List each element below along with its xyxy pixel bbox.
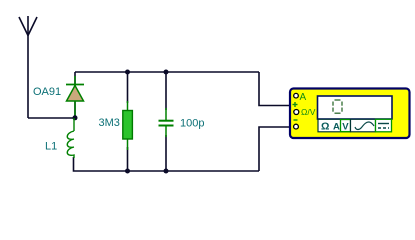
svg-text:100p: 100p (180, 118, 204, 130)
svg-text:A: A (333, 122, 340, 133)
sine wave glyph (355, 122, 374, 130)
svg-text:Ω: Ω (321, 121, 329, 133)
meter minus sign (294, 119, 298, 121)
meter plus sign (293, 102, 298, 107)
resistor R1 3M3 (123, 101, 133, 150)
meter button V selected (341, 120, 351, 132)
meter terminal ohm-volt circle (294, 110, 299, 115)
antenna AE1 (19, 16, 37, 36)
wire capacitor drop bottom (165, 135, 167, 171)
DC glyph solid line (378, 123, 389, 125)
junction top rail capacitor (164, 70, 169, 75)
meter terminal A circle (294, 93, 299, 98)
meter button DC selected (376, 119, 392, 132)
svg-text:A: A (300, 92, 307, 103)
junction bottom rail capacitor (164, 169, 169, 174)
svg-text:L1: L1 (45, 141, 57, 153)
meter display window (318, 96, 393, 119)
svg-text:OA91: OA91 (33, 86, 61, 98)
svg-text:3M3: 3M3 (99, 117, 120, 129)
wire antenna to node A (28, 117, 75, 119)
svg-text:Ω/V: Ω/V (301, 107, 316, 117)
wire resistor drop bottom (127, 147, 129, 171)
wire capacitor drop top (165, 72, 167, 110)
wire top rail (75, 71, 259, 73)
inductor L1 (67, 118, 74, 158)
DC glyph dashed line (378, 127, 389, 129)
junction top rail resistor (125, 70, 130, 75)
node A junction (73, 115, 78, 120)
wire inductor bottom corner (74, 157, 260, 171)
wire antenna mast down (27, 35, 29, 118)
meter button AC sine box (351, 119, 376, 132)
svg-text:V: V (342, 122, 349, 133)
capacitor C1 100p (159, 108, 174, 137)
wire bottom rail up to meter minus (259, 127, 290, 171)
wire diode top to rail corner (74, 72, 76, 118)
meter terminal minus circle (294, 124, 299, 129)
meter mode box ohm-A-V (318, 119, 351, 132)
junction bottom rail resistor (125, 169, 130, 174)
multimeter M1 body (290, 89, 410, 139)
wire resistor drop top (127, 72, 129, 103)
seven-segment digit 0 (333, 100, 342, 113)
diode D1 OA91 (66, 76, 84, 118)
wire top rail corner down to meter plus (259, 72, 290, 106)
